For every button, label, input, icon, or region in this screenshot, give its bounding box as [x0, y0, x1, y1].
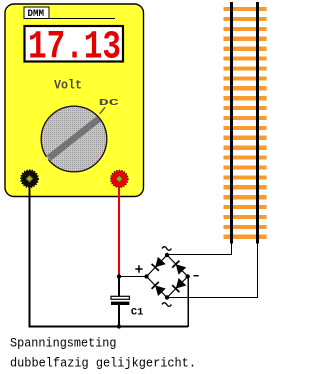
node capacitor bottom — [117, 324, 121, 328]
display — [25, 25, 124, 70]
wire red probe lead — [118, 187, 120, 277]
svg-text:C1: C1 — [131, 306, 144, 318]
node bridge left — [144, 274, 148, 278]
capacitor C1 — [111, 277, 129, 327]
DMM label box — [24, 7, 115, 20]
rotary knob — [41, 106, 107, 172]
track sleepers — [223, 7, 266, 239]
node bridge right — [186, 274, 190, 278]
wire bridge minus down — [187, 277, 189, 328]
wire junction to bridge + — [119, 276, 147, 278]
svg-text:Volt: Volt — [54, 78, 82, 92]
node bridge top — [165, 253, 169, 257]
label + — [135, 265, 142, 272]
label minus — [194, 275, 199, 277]
diode D1 top-left — [152, 257, 166, 270]
svg-text:17.13: 17.13 — [28, 25, 121, 70]
wire bridge bottom to right rail — [167, 243, 258, 298]
node bridge bottom — [165, 295, 169, 299]
diode D3 bottom-left — [152, 282, 166, 296]
svg-text:DC: DC — [99, 97, 120, 108]
track left rail — [230, 2, 233, 244]
label ~ bottom — [162, 303, 171, 307]
track right rail — [256, 2, 259, 244]
label ~ top — [162, 247, 171, 251]
wire black probe lead — [30, 187, 189, 327]
svg-text:dubbelfazig gelijkgericht.: dubbelfazig gelijkgericht. — [10, 357, 196, 371]
wire bridge top to left rail — [167, 243, 232, 255]
diode D4 bottom-right — [172, 279, 186, 293]
diode D2 top-right — [172, 261, 186, 274]
COM terminal (black) — [21, 170, 38, 187]
svg-text:DMM: DMM — [28, 8, 45, 20]
V terminal (red) — [111, 170, 128, 187]
knob indicator dot — [42, 157, 48, 163]
bridge rectifier frame — [147, 255, 188, 298]
node junction red/capacitor — [117, 274, 121, 278]
svg-text:Spanningsmeting: Spanningsmeting — [10, 337, 117, 351]
multimeter DMM body — [5, 4, 144, 197]
knob pointer mark — [100, 107, 105, 114]
